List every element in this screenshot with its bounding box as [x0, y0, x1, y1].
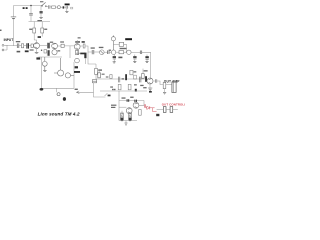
- transistor Q2: [52, 43, 58, 49]
- label 10K mid: [38, 36, 41, 38]
- wire after K2: [173, 109, 178, 111]
- label top bottom stage: [122, 97, 126, 98]
- transistor Q12: [126, 108, 132, 114]
- label INPUT: [4, 38, 14, 42]
- red tick: [144, 104, 145, 108]
- transistor Q4: [52, 50, 57, 55]
- label 4011: [80, 53, 85, 55]
- wire mid lower bus: [39, 56, 63, 58]
- label TONE: [125, 38, 132, 40]
- wire C9 to VR2: [109, 51, 111, 53]
- wire Q3 emitter ground: [77, 49, 79, 53]
- capacitor C21: [98, 71, 101, 78]
- label right of R7: [82, 41, 85, 43]
- label right tail: [71, 7, 73, 9]
- label under R3: [30, 49, 34, 50]
- capacitor C17 electrolytic: [125, 74, 127, 80]
- resistor R16: [92, 80, 96, 83]
- switch S1: [41, 2, 48, 6]
- label under C5: [17, 51, 21, 53]
- transistor Q8: [75, 58, 80, 63]
- transistor Q6: [54, 58, 64, 76]
- wire supply to collectors: [29, 22, 51, 29]
- wire supply to Q10: [150, 67, 152, 79]
- label right mid: [143, 87, 146, 88]
- wire VR3 right: [131, 51, 140, 53]
- trimmer VR2: [111, 50, 115, 54]
- wire left battery rail: [13, 6, 15, 47]
- resistor R26 left of C14: [44, 50, 47, 53]
- capacitor C10 series: [140, 51, 141, 55]
- wire to connectors: [157, 109, 164, 111]
- resistor R6 series: [61, 44, 64, 47]
- wire bottom dense lower rail: [100, 90, 147, 92]
- wire left loop vertical: [40, 57, 42, 88]
- transistor Q7: [65, 73, 74, 78]
- resistor R2: [21, 44, 23, 48]
- label S1: [23, 7, 28, 9]
- terminal mark left edge: [0, 30, 2, 31]
- resistor R12: [130, 70, 133, 75]
- label below R23: [110, 86, 113, 87]
- connector K2: [170, 107, 173, 113]
- wire red after diode: [150, 108, 157, 112]
- label R6: [60, 41, 64, 42]
- capacitor C15 electrolytic: [84, 53, 86, 64]
- capacitor C27 electrolytic: [145, 76, 147, 82]
- wire bottom dense top rail: [96, 78, 147, 80]
- capacitor C12 electrolytic to ground: [133, 55, 136, 63]
- resistor R5: [41, 26, 44, 37]
- label right of C16: [122, 78, 124, 79]
- diode D1: [63, 6, 65, 8]
- label under C4: [37, 20, 42, 21]
- capacitor C8 series: [92, 50, 94, 54]
- label right of Q4: [57, 50, 60, 51]
- ground blob red stage: [156, 114, 159, 116]
- resistor R1: [52, 6, 58, 8]
- label under C11: [118, 57, 122, 59]
- wire bottom stage frame: [119, 91, 144, 121]
- arrow diagonal small: [105, 93, 108, 96]
- dark base R21: [121, 118, 124, 121]
- wire Q10 output: [153, 81, 163, 85]
- label under C6: [25, 50, 29, 52]
- dark dash bottom left: [108, 95, 111, 97]
- label C21: [102, 74, 105, 75]
- svg-text:Lion sound TM 4.2: Lion sound TM 4.2: [38, 111, 80, 116]
- transistor Q10: [147, 78, 153, 84]
- resistor R22: [129, 113, 132, 122]
- capacitor C1 to ground from node A: [29, 6, 33, 22]
- capacitor C4 electrolytic: [40, 6, 43, 18]
- label R5: [44, 29, 47, 30]
- label C7: [50, 42, 53, 43]
- wire corner bottom left: [94, 83, 106, 97]
- resistor R13: [118, 84, 121, 89]
- wire base feed bottom stage: [119, 106, 126, 108]
- label small left: [75, 89, 78, 90]
- node A junction on rail: [30, 5, 32, 7]
- ground top right: [65, 7, 68, 12]
- capacitor C11 electrolytic to ground: [113, 54, 116, 63]
- label right of R12: [134, 71, 137, 72]
- terminal blob TP2: [63, 97, 66, 101]
- label R7 value: [75, 41, 80, 43]
- ground under C4: [39, 17, 42, 18]
- capacitor C13 electrolytic to ground: [145, 55, 148, 63]
- wire VR2 right: [116, 51, 119, 53]
- wire C5 to R2: [19, 45, 21, 47]
- ground blob mid: [75, 66, 78, 68]
- capacitor C24 right of Q3: [83, 44, 85, 48]
- terminal blob bottom left: [40, 88, 44, 91]
- wire input to C5: [8, 45, 17, 47]
- speaker SP1: [172, 82, 176, 92]
- label 4.7uF: [120, 48, 127, 49]
- wire Q10 emitter: [149, 84, 151, 88]
- ground under Q3: [76, 53, 80, 54]
- resistor R11: [95, 64, 98, 79]
- label C5: [16, 41, 20, 42]
- capacitor C3: [64, 6, 67, 9]
- lamp L1: [57, 6, 62, 9]
- capacitor C7 electrolytic series: [47, 43, 49, 49]
- junction dot left: [41, 50, 42, 51]
- resistor R21: [121, 111, 124, 122]
- svg-text:OUT CONTROLLER: OUT CONTROLLER: [162, 103, 185, 107]
- label under R19: [140, 85, 143, 86]
- transistor Q1: [34, 43, 40, 49]
- ground under C20: [163, 89, 166, 95]
- terminal TP1: [57, 93, 61, 96]
- capacitor C16: [118, 77, 119, 83]
- wire Q3 collector right: [80, 46, 92, 52]
- label mid small: [106, 76, 109, 77]
- label above switch: [40, 1, 43, 2]
- resistor R10: [75, 51, 78, 55]
- label left of bus: [36, 57, 40, 59]
- ground under Q1: [35, 52, 39, 53]
- capacitor C20 output: [163, 82, 166, 88]
- label left bottom stage: [111, 105, 116, 108]
- terminal dot mid: [135, 89, 137, 92]
- capacitor C14 electrolytic: [47, 50, 49, 56]
- capacitor C6 electrolytic: [24, 43, 31, 48]
- capacitor C22 top: [127, 99, 130, 102]
- ground under Q10: [148, 88, 152, 90]
- label OUT dash: [74, 71, 80, 73]
- label OUT CONTROLLER red: [162, 103, 191, 107]
- arrowhead pot feed: [76, 91, 79, 94]
- ground under Q5: [43, 70, 46, 71]
- label above terminal: [134, 84, 137, 85]
- wire bottom loop horizontal: [41, 87, 74, 89]
- resistor R24 right: [139, 110, 142, 116]
- title Lion sound TM 4.2: [38, 111, 80, 116]
- trimmer VR3: [127, 50, 131, 54]
- wire Q1 emitter to ground: [36, 49, 38, 53]
- capacitor C2 series: [49, 5, 52, 9]
- wire C20 to speaker: [166, 84, 172, 86]
- wire pot feed: [76, 91, 93, 93]
- resistor R8 tone: [113, 42, 126, 52]
- battery B1: [11, 17, 16, 19]
- pot P1 tone circle: [111, 35, 115, 50]
- resistor R4 collector: [33, 26, 36, 40]
- capacitor C26: [140, 77, 141, 83]
- dark base R22: [129, 118, 132, 121]
- diode D2 red: [147, 106, 150, 109]
- label 4k7 marks: [112, 89, 115, 90]
- resistor R19: [142, 74, 145, 79]
- wire C10 right corner down: [142, 52, 151, 66]
- label 9V: [65, 4, 70, 6]
- resistor R3 base: [31, 44, 34, 47]
- transistor Q11: [133, 101, 144, 109]
- capacitor C23 top: [134, 100, 137, 102]
- capacitor C5 series input: [17, 43, 19, 48]
- wire right loop vertical: [73, 62, 75, 88]
- trimmer VR1: [100, 50, 105, 55]
- label C8: [91, 47, 95, 48]
- label R19: [144, 70, 148, 71]
- wire R6 right: [64, 46, 74, 58]
- resistor R9 series: [119, 51, 124, 54]
- wire R19 stub: [142, 69, 144, 79]
- resistor R14: [128, 84, 131, 89]
- wire red mod feed: [146, 107, 147, 109]
- wire top supply rail: [14, 5, 43, 7]
- resistor R23: [110, 75, 112, 79]
- ground center bottom stage: [125, 121, 128, 126]
- wire Q1 to C7: [40, 45, 48, 47]
- label R4: [29, 29, 32, 30]
- label R11: [98, 69, 102, 70]
- label left of VR2: [109, 50, 111, 51]
- label top right bottom stage: [130, 97, 133, 98]
- wire branch to test point: [56, 88, 58, 92]
- capacitor C25 after Q10: [156, 79, 157, 83]
- wire R9 to VR3: [124, 51, 127, 53]
- wire Q2 to R6: [58, 45, 62, 47]
- svg-text:INPUT: INPUT: [4, 38, 14, 42]
- label above Q3: [78, 37, 81, 38]
- transistor Q5: [42, 57, 47, 70]
- transistor Q3: [74, 40, 80, 49]
- wire C8 to VR1: [94, 51, 99, 53]
- connector K1: [163, 107, 166, 113]
- ground blob Q10: [149, 91, 152, 93]
- capacitor C9 series: [108, 50, 109, 54]
- wire between connectors: [166, 109, 170, 111]
- wire VR1 right: [104, 51, 107, 53]
- resistor R25: [134, 75, 137, 79]
- wire Q1 collector up: [34, 40, 36, 43]
- connector J1 input jack: [2, 44, 8, 51]
- wire mid right bus: [88, 52, 96, 64]
- label VR1: [99, 47, 104, 48]
- label OUT AMP: [164, 79, 180, 83]
